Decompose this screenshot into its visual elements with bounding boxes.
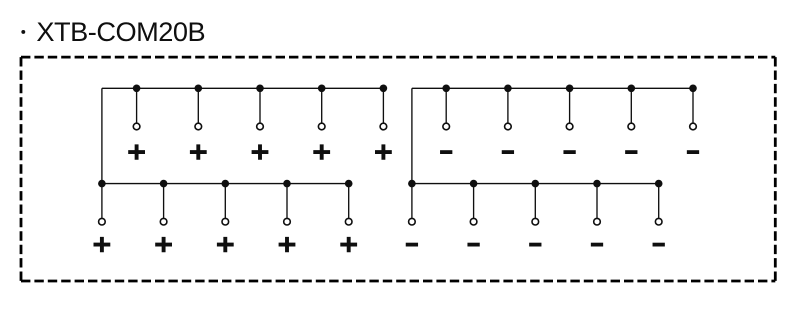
open terminal circle bottom-left + group terminal 4 bbox=[284, 218, 291, 225]
stub wire bottom-left + group terminal 5 bbox=[348, 184, 350, 222]
junction dot top-left + group terminal 3 bbox=[256, 85, 264, 93]
stub wire bottom-left + group terminal 4 bbox=[286, 184, 288, 222]
junction dot top-right - group terminal 5 bbox=[689, 85, 697, 93]
stub wire top-right - group terminal 2 bbox=[507, 88, 509, 126]
stub wire bottom-left + group terminal 3 bbox=[224, 184, 226, 222]
stub wire bottom-right - group terminal 2 bbox=[473, 184, 475, 222]
open terminal circle bottom-right - group terminal 4 bbox=[594, 218, 601, 225]
open terminal circle bottom-right - group terminal 2 bbox=[470, 218, 477, 225]
stub wire top-left + group terminal 1 bbox=[136, 88, 138, 126]
polarity label - bottom-right - group terminal 3 bbox=[529, 243, 541, 247]
polarity label - top-right - group terminal 3 bbox=[563, 150, 575, 154]
open terminal circle top-left + group terminal 5 bbox=[380, 123, 387, 130]
stub wire bottom-left + group terminal 2 bbox=[163, 184, 165, 222]
polarity label + bottom-left + group terminal 3 bbox=[217, 237, 234, 252]
open terminal circle bottom-left + group terminal 1 bbox=[99, 218, 106, 225]
junction dot bottom-left + group terminal 4 bbox=[283, 180, 291, 188]
polarity label + top-left + group terminal 4 bbox=[313, 144, 330, 159]
stub wire top-right - group terminal 4 bbox=[630, 88, 632, 126]
open terminal circle bottom-right - group terminal 1 bbox=[409, 218, 416, 225]
junction dot top-left + group terminal 4 bbox=[318, 85, 326, 93]
open terminal circle top-right - group terminal 2 bbox=[505, 123, 512, 130]
polarity label - top-right - group terminal 4 bbox=[625, 150, 637, 154]
polarity label + top-left + group terminal 3 bbox=[252, 144, 269, 159]
polarity label + bottom-left + group terminal 2 bbox=[155, 237, 172, 252]
open terminal circle top-right - group terminal 5 bbox=[690, 123, 697, 130]
bus wire (bottom-right - group) bbox=[412, 183, 659, 185]
junction dot bottom-left + group terminal 3 bbox=[222, 180, 230, 188]
polarity label + top-left + group terminal 2 bbox=[190, 144, 207, 159]
svg-text:XTB-COM20B: XTB-COM20B bbox=[36, 16, 205, 47]
bus wire (bottom-left + group) bbox=[102, 183, 349, 185]
junction dot bottom-right - group terminal 5 bbox=[655, 180, 663, 188]
open terminal circle bottom-left + group terminal 3 bbox=[222, 218, 229, 225]
polarity label - top-right - group terminal 1 bbox=[440, 150, 452, 154]
junction dot bottom-right - group terminal 3 bbox=[532, 180, 540, 188]
bus wire (top-left + group) bbox=[102, 87, 384, 89]
stub wire bottom-right - group terminal 3 bbox=[534, 184, 536, 222]
stub wire top-left + group terminal 5 bbox=[382, 88, 384, 126]
stub wire bottom-right - group terminal 1 bbox=[411, 184, 413, 222]
junction dot top-left + group terminal 5 bbox=[380, 85, 388, 93]
stub wire top-right - group terminal 3 bbox=[569, 88, 571, 126]
junction dot bottom-left + group terminal 1 bbox=[98, 180, 106, 188]
stub wire top-left + group terminal 2 bbox=[197, 88, 199, 126]
stub wire top-left + group terminal 3 bbox=[259, 88, 261, 126]
polarity label + bottom-left + group terminal 1 bbox=[94, 237, 111, 252]
bus wire (top-right - group) bbox=[412, 87, 693, 89]
stub wire bottom-right - group terminal 4 bbox=[596, 184, 598, 222]
open terminal circle bottom-right - group terminal 3 bbox=[532, 218, 539, 225]
open terminal circle top-left + group terminal 3 bbox=[257, 123, 264, 130]
polarity label + bottom-left + group terminal 4 bbox=[279, 237, 296, 252]
junction dot bottom-left + group terminal 5 bbox=[345, 180, 353, 188]
polarity label + top-left + group terminal 5 bbox=[375, 144, 392, 159]
stub wire top-left + group terminal 4 bbox=[321, 88, 323, 126]
junction dot top-right - group terminal 3 bbox=[566, 85, 574, 93]
polarity label + top-left + group terminal 1 bbox=[128, 144, 145, 159]
polarity label - bottom-right - group terminal 2 bbox=[467, 243, 479, 247]
open terminal circle top-left + group terminal 4 bbox=[318, 123, 325, 130]
open terminal circle top-right - group terminal 1 bbox=[443, 123, 450, 130]
open terminal circle top-left + group terminal 2 bbox=[195, 123, 202, 130]
polarity label - top-right - group terminal 2 bbox=[502, 150, 514, 154]
polarity label - top-right - group terminal 5 bbox=[687, 150, 699, 154]
feed wire down from top-left + group bus to lower bus bbox=[101, 88, 103, 183]
terminal block outline (dashed border) bbox=[21, 57, 775, 281]
junction dot bottom-right - group terminal 2 bbox=[470, 180, 478, 188]
junction dot bottom-left + group terminal 2 bbox=[160, 180, 168, 188]
polarity label + bottom-left + group terminal 5 bbox=[340, 237, 357, 252]
junction dot top-right - group terminal 1 bbox=[442, 85, 450, 93]
junction dot top-left + group terminal 1 bbox=[133, 85, 141, 93]
junction dot bottom-right - group terminal 4 bbox=[593, 180, 601, 188]
polarity label - bottom-right - group terminal 1 bbox=[406, 243, 418, 247]
stub wire top-right - group terminal 5 bbox=[692, 88, 694, 126]
polarity label - bottom-right - group terminal 4 bbox=[591, 243, 603, 247]
open terminal circle bottom-left + group terminal 2 bbox=[160, 218, 167, 225]
open terminal circle bottom-right - group terminal 5 bbox=[655, 218, 662, 225]
feed wire down from top-right - group bus to lower bus bbox=[411, 88, 413, 183]
stub wire bottom-right - group terminal 5 bbox=[658, 184, 660, 222]
junction dot top-right - group terminal 4 bbox=[628, 85, 636, 93]
junction dot top-right - group terminal 2 bbox=[504, 85, 512, 93]
junction dot bottom-right - group terminal 1 bbox=[408, 180, 416, 188]
open terminal circle top-right - group terminal 4 bbox=[628, 123, 635, 130]
open terminal circle bottom-left + group terminal 5 bbox=[345, 218, 352, 225]
open terminal circle top-right - group terminal 3 bbox=[566, 123, 573, 130]
junction dot top-left + group terminal 2 bbox=[195, 85, 203, 93]
polarity label - bottom-right - group terminal 5 bbox=[653, 243, 665, 247]
open terminal circle top-left + group terminal 1 bbox=[133, 123, 140, 130]
title bullet bbox=[21, 30, 25, 34]
stub wire bottom-left + group terminal 1 bbox=[101, 184, 103, 222]
stub wire top-right - group terminal 1 bbox=[445, 88, 447, 126]
